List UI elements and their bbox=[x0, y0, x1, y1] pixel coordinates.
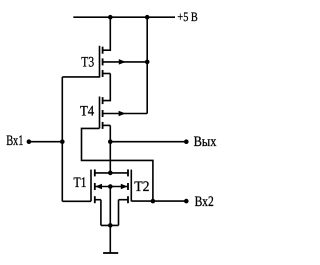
svg-text:Вх2: Вх2 bbox=[195, 194, 214, 210]
wire T2 gate lead bbox=[131, 200, 153, 202]
svg-text:+5 В: +5 В bbox=[177, 9, 198, 24]
transistor T1 (n-channel) bbox=[91, 169, 102, 203]
power rail +5V bbox=[73, 16, 175, 18]
wire Vyx output lead bbox=[110, 141, 186, 143]
wire substrate riser x=147 bbox=[146, 17, 148, 113]
junction Vx2 lead / T4 gate loop bbox=[151, 199, 156, 204]
terminal dot Vx1 bbox=[27, 139, 32, 144]
junction source bus / ground stem bbox=[108, 223, 113, 228]
svg-text:Т4: Т4 bbox=[80, 104, 95, 120]
svg-text:Т2: Т2 bbox=[134, 179, 149, 195]
junction Vx1 lead / riser bbox=[60, 139, 65, 144]
wire T1 source drop bbox=[100, 200, 102, 226]
junction output node / Vyx lead bbox=[108, 139, 113, 144]
transistor T3 (p-channel) bbox=[100, 46, 148, 78]
wire T2 source drop bbox=[118, 200, 120, 226]
terminal dot Vx2 bbox=[184, 199, 189, 204]
wire T4 gate to Vx2 loop bbox=[82, 128, 153, 201]
wire source bus bbox=[101, 224, 119, 226]
terminal dot Vyx bbox=[184, 139, 189, 144]
wire Vx1 input lead bbox=[29, 141, 62, 143]
wire Vx2 input lead bbox=[153, 200, 186, 202]
wire rail to T3 drain bbox=[103, 17, 111, 50]
wire T1 gate lead bbox=[62, 200, 91, 202]
junction output / T1 T2 drains bbox=[108, 171, 113, 176]
junction T3 substrate / riser bbox=[145, 60, 150, 65]
wire T4 source down to output node bbox=[109, 125, 111, 172]
wire T3 source to T4 drain bbox=[103, 74, 111, 101]
svg-text:Вых: Вых bbox=[194, 134, 217, 150]
transistor T2 (n-channel) bbox=[119, 169, 132, 203]
svg-text:Т1: Т1 bbox=[74, 175, 87, 191]
ground bbox=[103, 252, 118, 254]
junction rail / substrate riser bbox=[145, 15, 150, 20]
wire ground stem bbox=[109, 225, 111, 253]
wire substrate to ground bar bbox=[109, 187, 111, 226]
wire Vx1 riser (node Vx1) bbox=[61, 77, 63, 201]
wire T3 gate to Vx1 riser bbox=[62, 76, 99, 78]
svg-text:Т3: Т3 bbox=[81, 55, 94, 71]
transistor T4 (p-channel) bbox=[100, 97, 148, 129]
wire T1-T2 drain link bbox=[95, 172, 128, 174]
junction substrate link / ground drop bbox=[108, 184, 113, 189]
junction rail / T3 drain bbox=[108, 15, 113, 20]
wire T1-T2 substrate link bbox=[95, 186, 128, 188]
svg-text:Вх1: Вх1 bbox=[6, 133, 23, 149]
